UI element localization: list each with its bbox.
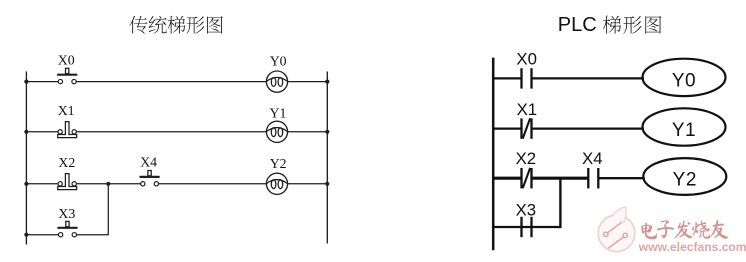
wire rung3 X2-to-junction [77, 183, 109, 185]
node rung2-left [24, 130, 28, 134]
svg-text:Y2: Y2 [270, 156, 287, 171]
node rung3-junction [106, 182, 110, 186]
node rung1-left [24, 80, 28, 84]
PLC left rail [492, 58, 495, 251]
wire X3-branch right [77, 234, 109, 236]
wire rung3 left [26, 183, 58, 185]
svg-text:Y2: Y2 [673, 170, 697, 191]
lamp Y0 [266, 71, 287, 92]
svg-text:Y0: Y0 [672, 71, 696, 92]
wire rung3 right [288, 183, 328, 185]
svg-text:X0: X0 [516, 50, 537, 69]
contact X0 (NO pushbutton) [58, 68, 76, 83]
PLC contact X0 (NO) [522, 68, 532, 88]
contact X3 (NO pushbutton) [58, 221, 76, 236]
PLC wire branch riser [559, 178, 561, 228]
svg-text:Y0: Y0 [270, 53, 287, 68]
node rung3-right [325, 182, 329, 186]
PLC wire rung2 right [532, 127, 645, 129]
wire rung3 middle [159, 183, 267, 185]
PLC coil Y1 [643, 108, 726, 145]
PLC contact X2 (NC) [522, 168, 532, 189]
wire rung1 left [26, 81, 58, 83]
watermark text 电子发烧友 [641, 220, 728, 239]
PLC wire rung3 right [598, 177, 645, 179]
svg-text:Y1: Y1 [270, 105, 287, 120]
wire rung2 middle [77, 131, 267, 133]
svg-text:X2: X2 [516, 149, 537, 168]
right power rail (traditional) [326, 72, 328, 244]
contact X4 (NO pushbutton) [140, 171, 158, 186]
PLC coil Y0 [643, 59, 726, 96]
lamp Y1 [266, 121, 287, 142]
svg-text:X3: X3 [516, 200, 537, 219]
wire rung2 left [26, 131, 58, 133]
svg-text:X2: X2 [58, 155, 75, 170]
left power rail (traditional) [25, 72, 27, 245]
wire rung3 junction-to-X4 [108, 183, 140, 185]
PLC contact X3 (NO) [522, 217, 532, 237]
node rung1-right [325, 80, 329, 84]
contact X1 (NC pushbutton) [58, 122, 77, 138]
title: 传统梯形图 (traditional ladder diagram) [129, 16, 223, 34]
svg-text:PLC: PLC [558, 14, 597, 36]
wire branch riser [107, 184, 109, 236]
wire rung1 right [288, 81, 328, 83]
svg-text:X0: X0 [58, 53, 75, 68]
svg-text:www.elecfans.com: www.elecfans.com [638, 240, 746, 254]
svg-text:X4: X4 [582, 149, 603, 168]
PLC wire rung3 left [493, 177, 521, 180]
wire rung2 right [288, 131, 328, 133]
PLC contact X4 (NO) [588, 168, 598, 188]
wire X3-branch left [26, 234, 58, 236]
watermark logo circle [598, 207, 635, 252]
svg-text:X1: X1 [517, 100, 538, 119]
wire rung1 middle [76, 81, 266, 83]
PLC wire rung3 X2-to-X4 [532, 177, 589, 180]
node rung2-right [325, 130, 329, 134]
PLC wire rung2 left [493, 127, 521, 129]
svg-text:Y1: Y1 [672, 120, 696, 141]
contact X2 (NC pushbutton) [58, 174, 77, 190]
svg-text:X4: X4 [140, 155, 157, 170]
PLC wire rung1 left [493, 77, 521, 79]
PLC wire X3-branch [493, 226, 560, 228]
svg-text:X3: X3 [58, 206, 75, 221]
node X3-branch-left [24, 233, 28, 237]
svg-text:X1: X1 [58, 103, 75, 118]
lamp Y2 [266, 173, 287, 194]
PLC contact X1 (NC) [522, 118, 532, 139]
PLC wire rung1 right [532, 77, 645, 79]
PLC coil Y2 [643, 158, 726, 195]
node rung3-left [24, 182, 28, 186]
